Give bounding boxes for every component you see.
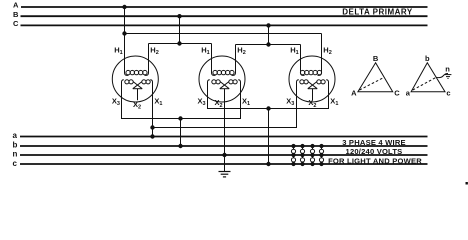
- svg-text:a: a: [13, 131, 18, 140]
- node junction c-drop on jog: [267, 107, 270, 110]
- wire bus B drop: [179, 16, 181, 43]
- svg-text:b: b: [13, 141, 18, 150]
- node junction b-drop on bus b: [179, 144, 182, 147]
- wire bus C drop: [268, 25, 270, 44]
- wire A jog to T3.H2: [125, 33, 322, 35]
- node junction b-drop on jog: [179, 117, 182, 120]
- T1 primary winding leads H1 H2: [125, 7, 129, 75]
- node junction A jog branch: [123, 32, 126, 35]
- bus b secondary phase line: [20, 145, 428, 147]
- lamp load drop 3: [310, 144, 314, 165]
- svg-text:DELTA PRIMARY: DELTA PRIMARY: [342, 8, 413, 17]
- bus a secondary phase line: [20, 136, 428, 138]
- wire B jog T1.H2 to T2.H1: [149, 43, 212, 45]
- bus c secondary phase line: [20, 163, 428, 165]
- node junction c-drop on bus c: [267, 162, 270, 165]
- svg-text:c: c: [446, 88, 450, 97]
- transformer T3 tank outline: [289, 56, 335, 102]
- lamp load drop 2: [300, 144, 304, 165]
- T1 secondary coil with center-tap arrow: [122, 80, 153, 101]
- node junction A drop on bus A: [123, 5, 126, 8]
- node junction B drop on bus B: [178, 15, 181, 18]
- period mark bottom right: [466, 182, 468, 185]
- node junction C drop on bus C: [267, 24, 270, 27]
- transformer T1 tank outline: [112, 56, 158, 102]
- wire phasor n leader: [436, 73, 448, 77]
- ground symbol at T2 neutral: [219, 172, 231, 177]
- node junction B drop on jog: [178, 42, 181, 45]
- svg-text:A: A: [351, 88, 357, 97]
- svg-text:n: n: [13, 150, 18, 159]
- bus A primary phase line: [21, 6, 428, 8]
- wire node-a jog to T3.X3: [153, 84, 297, 128]
- wire T1.X3 jog to T2.X1: [122, 84, 241, 119]
- svg-text:c: c: [13, 159, 18, 168]
- svg-text:C: C: [13, 19, 19, 28]
- wire T2.X3 jog to T3.X1: [208, 84, 329, 109]
- transformer T2 tank outline: [199, 56, 245, 102]
- phasor triangle abc: [411, 63, 445, 92]
- svg-text:FOR LIGHT AND POWER: FOR LIGHT AND POWER: [328, 156, 422, 165]
- bus B primary phase line: [21, 15, 428, 17]
- svg-text:A: A: [13, 1, 19, 10]
- T2 primary winding leads H1 H2: [212, 44, 216, 76]
- svg-text:B: B: [13, 10, 19, 19]
- node junction neutral on bus n: [223, 153, 226, 156]
- svg-text:120/240 VOLTS: 120/240 VOLTS: [346, 147, 403, 156]
- wire c drop: [268, 109, 270, 165]
- wire T2.X2 neutral drop to ground: [224, 89, 226, 171]
- ground symbol at phasor n: [445, 75, 452, 79]
- T3 secondary coil with center-tap arrow: [297, 80, 329, 101]
- node junction T1.X1 jog: [151, 126, 154, 129]
- T2 primary coil: [213, 70, 234, 74]
- lamp load drop 4: [319, 144, 323, 165]
- wire T1.X1 to bus a: [152, 84, 154, 137]
- phasor triangle ABC: [358, 63, 393, 92]
- T2 secondary coil with center-tap arrow: [208, 80, 241, 89]
- T3 primary coil: [300, 70, 321, 74]
- lamp load drop 1: [291, 144, 295, 165]
- T1 primary coil: [126, 70, 147, 74]
- svg-text:n: n: [445, 64, 450, 73]
- svg-text:B: B: [373, 54, 379, 63]
- bus C primary phase line: [21, 24, 428, 26]
- svg-text:C: C: [394, 88, 400, 97]
- svg-text:3 PHASE 4 WIRE: 3 PHASE 4 WIRE: [342, 138, 406, 147]
- node junction C drop on jog: [267, 43, 270, 46]
- svg-text:b: b: [425, 54, 430, 63]
- wire C jog T2.H2 to T3.H1: [236, 44, 301, 46]
- bus n secondary neutral line: [20, 154, 428, 156]
- node junction T1.X1 on bus a: [151, 135, 154, 138]
- T3 primary winding leads H1 H2: [301, 45, 305, 76]
- wire b drop: [180, 119, 182, 147]
